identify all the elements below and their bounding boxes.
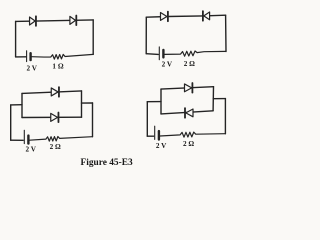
battery B2 long plate xyxy=(158,47,160,60)
wire: circuit 4 left stub xyxy=(147,101,161,103)
battery B4 short plate xyxy=(158,131,160,139)
battery B3 long plate xyxy=(23,130,25,143)
wire: circuit 4 outer right side xyxy=(224,99,226,134)
svg-text:1 Ω: 1 Ω xyxy=(52,62,63,70)
diode D4 (reversed) xyxy=(203,11,210,21)
battery B4 long plate xyxy=(154,126,156,139)
diode D7 xyxy=(185,83,193,93)
svg-text:2 V: 2 V xyxy=(26,64,37,72)
wire: circuit 1 right side xyxy=(92,20,94,55)
diode D3 xyxy=(161,12,168,22)
wire: circuit 2 bottom with resistor R2 zigzag xyxy=(165,51,226,56)
battery B1 short plate xyxy=(29,53,31,60)
wire: circuit 3 bottom with resistor R3 zigzag xyxy=(30,137,93,142)
wire: circuit 1 bottom with resistor R1 zigzag xyxy=(31,54,93,59)
wire: circuit 2 left side xyxy=(145,17,147,54)
battery B1 long plate xyxy=(26,51,28,62)
wire: circuit 2 right side xyxy=(225,15,227,51)
svg-text:2 V: 2 V xyxy=(156,142,167,150)
wire: circuit 4 right stub xyxy=(213,98,225,100)
svg-text:2 Ω: 2 Ω xyxy=(183,140,194,148)
wire: circuit 1 top side xyxy=(16,20,94,22)
wire: circuit 3 outer right side xyxy=(92,103,94,137)
svg-text:2 Ω: 2 Ω xyxy=(50,143,61,151)
wire: circuit 3 top branch xyxy=(22,91,82,94)
wire: circuit 3 outer left side xyxy=(10,105,12,140)
wire: circuit 4 inner right vertical xyxy=(212,87,214,111)
svg-text:2 V: 2 V xyxy=(162,61,173,69)
wire: circuit 4 top branch xyxy=(161,87,214,89)
wire: circuit 1 bottom left segment xyxy=(16,56,26,58)
diode D5 xyxy=(51,87,59,97)
wire: circuit 3 inner left vertical xyxy=(21,93,23,117)
diode D6 xyxy=(51,113,59,123)
wire: circuit 4 bottom branch xyxy=(161,111,213,114)
diode D8 (reversed) xyxy=(185,108,193,118)
wire: circuit 2 top side xyxy=(146,15,225,17)
wire: circuit 4 bottom with resistor R4 zigzag xyxy=(160,132,225,137)
wire: circuit 3 left stub xyxy=(11,104,22,106)
wire: circuit 3 inner right vertical xyxy=(81,91,83,117)
svg-text:2 Ω: 2 Ω xyxy=(184,60,195,68)
wire: circuit 4 outer left side xyxy=(146,102,148,137)
battery B3 short plate xyxy=(27,136,29,144)
wire: circuit 3 right stub xyxy=(82,102,93,104)
diode D1 xyxy=(30,16,36,26)
svg-text:Figure 45-E3: Figure 45-E3 xyxy=(81,158,133,168)
wire: circuit 3 bottom left segment xyxy=(11,139,24,141)
battery B2 short plate xyxy=(162,50,164,57)
svg-text:2 V: 2 V xyxy=(25,146,36,154)
wire: circuit 2 bottom left segment xyxy=(146,53,158,56)
wire: circuit 1 left side xyxy=(15,21,17,57)
wire: circuit 3 bottom branch xyxy=(22,116,82,118)
diode D2 xyxy=(70,16,76,26)
wire: circuit 4 inner left vertical xyxy=(160,89,162,114)
wire: circuit 4 bottom left segment xyxy=(147,135,153,137)
